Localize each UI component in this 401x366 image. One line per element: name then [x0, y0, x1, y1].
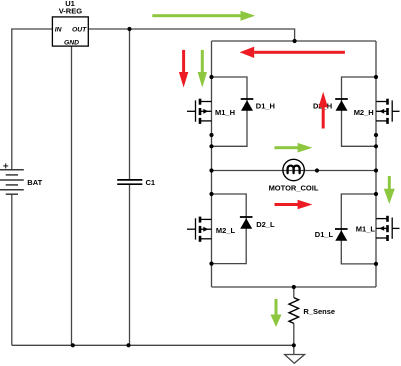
node ground junction	[292, 343, 296, 347]
node motor right junction	[315, 168, 319, 172]
svg-text:OUT: OUT	[72, 27, 87, 34]
svg-text:M1_H: M1_H	[215, 108, 235, 117]
regulator U1 box	[52, 17, 88, 46]
wire bottom return	[12, 344, 294, 346]
arrow green motor right	[275, 143, 313, 153]
node right diode bottom junction	[374, 144, 378, 148]
wire D1_L branch	[341, 194, 376, 264]
node C1/OUT junction	[127, 27, 131, 31]
node left motor junction	[209, 168, 213, 172]
node right source junction	[374, 133, 378, 137]
wire right branch vertical	[375, 41, 377, 287]
svg-text:D2_L: D2_L	[256, 220, 275, 229]
svg-text:GND: GND	[64, 40, 79, 47]
arrow green down R_Sense	[271, 299, 282, 327]
wire top rail	[212, 40, 377, 42]
node left source junction	[209, 133, 213, 137]
svg-text:BAT: BAT	[27, 178, 42, 187]
diode D2_L	[240, 217, 253, 229]
svg-text:V-REG: V-REG	[59, 7, 83, 16]
arrow red down left	[179, 50, 188, 88]
battery BAT	[0, 170, 24, 195]
svg-text:MOTOR_COIL: MOTOR_COIL	[269, 184, 319, 193]
wire motor rail	[212, 170, 377, 172]
wire left branch vertical	[211, 41, 213, 287]
wire battery+ to V-REG IN	[12, 29, 53, 169]
mosfet M2_L	[187, 217, 212, 242]
capacitor C1	[117, 180, 142, 184]
diode D2_H	[335, 99, 348, 111]
svg-text:M2_L: M2_L	[216, 226, 236, 235]
mosfet M2_H	[376, 99, 400, 124]
wire C1 bottom	[129, 184, 131, 345]
mosfet M1_H	[187, 99, 212, 124]
battery plus sign	[3, 163, 8, 168]
arrow green down left	[198, 50, 207, 88]
arrow red up D2_H	[319, 92, 328, 129]
node left lower diode junction	[209, 262, 213, 266]
svg-text:M1_L: M1_L	[356, 225, 376, 234]
node right motor junction	[374, 168, 378, 172]
wire R_Sense leads	[293, 287, 295, 298]
node left lower drain junction	[209, 192, 213, 196]
wire V-REG GND down	[71, 46, 73, 345]
wire D2_L branch	[212, 194, 247, 264]
node right lower diode junction	[374, 262, 378, 266]
ground	[285, 345, 305, 363]
node R_Sense top junction	[292, 285, 296, 289]
wire battery- down	[11, 194, 13, 345]
arrow green supply right	[152, 11, 255, 21]
svg-text:IN: IN	[55, 27, 63, 34]
node left drain junction	[209, 75, 213, 79]
node left diode bottom junction	[209, 144, 213, 148]
arrow red motor right	[275, 200, 313, 210]
node right lower drain junction	[374, 192, 378, 196]
wire V-REG OUT to bridge feed	[88, 29, 294, 41]
mosfet M1_L	[376, 216, 400, 241]
svg-text:R_Sense: R_Sense	[303, 307, 335, 316]
diode D1_L	[335, 229, 348, 241]
node bridge feed junction	[293, 39, 297, 43]
resistor R_Sense	[289, 298, 299, 324]
arrow green down right branch	[384, 176, 395, 204]
diode D1_H	[241, 99, 254, 111]
motor U2 MOTOR_COIL	[283, 159, 304, 180]
wire D1_H branch	[212, 77, 248, 146]
svg-text:D1_L: D1_L	[315, 230, 334, 239]
arrow red top-rail left	[240, 47, 345, 58]
wire D2_H branch	[342, 77, 377, 146]
svg-text:C1: C1	[146, 178, 156, 187]
node GND return junction	[71, 343, 75, 347]
node right drain junction	[374, 75, 378, 79]
svg-text:D1_H: D1_H	[256, 102, 275, 111]
wire C1 top	[129, 29, 131, 180]
node C1 return junction	[126, 343, 130, 347]
svg-text:M2_H: M2_H	[354, 108, 374, 117]
wire bottom rail	[212, 286, 377, 288]
